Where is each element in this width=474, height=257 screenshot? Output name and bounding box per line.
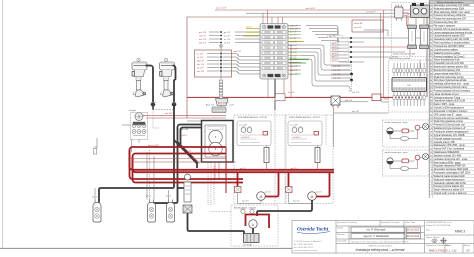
svg-text:Zlacze konektorowe 8-pin: Zlacze konektorowe 8-pin [434,59,461,62]
svg-text:Sprawdzil / Checked: Sprawdzil / Checked [381,222,399,224]
svg-text:Oswietlenie kabiny LED 12V 2x3: Oswietlenie kabiny LED 12V 2x3W [434,38,470,41]
svg-text:cb 1.5²: cb 1.5² [197,56,203,59]
svg-text:ACC 1x1.5²: ACC 1x1.5² [218,101,229,104]
svg-text:ACC 1.5²: ACC 1.5² [206,104,215,107]
svg-text:Arkusz: Arkusz [464,244,470,247]
svg-text:mas 16²: mas 16² [184,150,192,153]
svg-text:stacyjka: stacyjka [129,109,137,112]
svg-text:Zasilanie lodowki 12V 45W: Zasilanie lodowki 12V 45W [434,155,462,157]
svg-text:Sygnal dzwiekowy 12V 105dB: Sygnal dzwiekowy 12V 105dB [434,135,465,137]
svg-text:Antena VHF 1.5m z podstawa: Antena VHF 1.5m z podstawa [434,148,465,151]
svg-text:pz 1.5²: pz 1.5² [166,195,172,198]
svg-text:Akumulator serwisowy 90Ah AGM: Akumulator serwisowy 90Ah AGM [434,168,469,171]
svg-text:fax +48 89 646 29 56: fax +48 89 646 29 56 [294,247,314,249]
svg-text:hor 1.5²: hor 1.5² [197,70,204,73]
svg-text:Przewod zasilajacy 2x2.5mm2: Przewod zasilajacy 2x2.5mm2 [434,55,466,58]
svg-text:zie 1.5²: zie 1.5² [290,57,297,60]
svg-text:akum 2x16²: akum 2x16² [148,144,159,147]
svg-text:16.10.2012: 16.10.2012 [407,235,420,238]
svg-text:ec 1.5²: ec 1.5² [224,38,230,41]
svg-text:Silnik zaburtowy 40KM z rozr.: Silnik zaburtowy 40KM z rozr. elektr. [434,11,471,14]
svg-text:Panel rozdzielczy z bezpieczni: Panel rozdzielczy z bezpiecznikami [434,42,470,45]
svg-text:Przewod rozruchowy 2x16mm2: Przewod rozruchowy 2x16mm2 [434,14,467,17]
svg-text:Przekaznik rozdzielajacy VSR 1: Przekaznik rozdzielajacy VSR 125A [434,172,471,175]
svg-text:Przewod masowy 16mm2 czarny: Przewod masowy 16mm2 czarny [434,86,469,89]
svg-text:acc 1.5²: acc 1.5² [290,47,297,50]
svg-text:Listwa zaciskowa 12-pol.: Listwa zaciskowa 12-pol. [434,93,460,96]
svg-text:Lampa kotwiczna topowa LED: Lampa kotwiczna topowa LED [434,35,465,38]
svg-text:wyl.: wyl. [178,169,182,171]
svg-text:pom 1.5²: pom 1.5² [290,73,298,76]
svg-text:lod 1.5²: lod 1.5² [290,44,297,47]
svg-text:acc 1.5²: acc 1.5² [197,63,204,66]
svg-text:Przycisk sygnalu na konsoli: Przycisk sygnalu na konsoli [434,137,463,140]
svg-text:vcc +12V: vcc +12V [239,124,248,126]
svg-text:pol 1.5²: pol 1.5² [332,55,339,58]
svg-text:Pompa prysznica kokpitu 12V: Pompa prysznica kokpitu 12V [434,185,465,188]
svg-text:cb 1.5²: cb 1.5² [290,40,296,43]
svg-text:Nazwa / Name:: Nazwa / Name: [426,237,440,239]
svg-text:Skala: Skala [446,245,452,247]
svg-text:pol 1.5²: pol 1.5² [332,45,339,48]
svg-text:Przekaznik rozruchu 12V 30A: Przekaznik rozruchu 12V 30A [434,62,465,65]
svg-text:Instalacja elektryczna – schem: Instalacja elektryczna – schemat [356,248,406,252]
svg-text:pw 2.5²: pw 2.5² [265,190,271,193]
svg-text:zlacze instalacji silnikow: zlacze instalacji silnikow [389,57,411,60]
svg-text:Wskaznik poziomu paliwa: Wskaznik poziomu paliwa [434,53,461,55]
svg-text:sw 1.5²: sw 1.5² [197,66,204,69]
svg-text:Zawor elektryczny paliwa 12V: Zawor elektryczny paliwa 12V [434,189,465,192]
svg-text:pol 1.5²: pol 1.5² [332,52,339,55]
svg-text:Okablowanie NMEA2000: Okablowanie NMEA2000 [434,151,460,154]
svg-text:Projekt: Projekt [337,227,344,230]
svg-text:Wylacznik plywakowy pompy: Wylacznik plywakowy pompy [434,121,464,123]
svg-text:pol 1.5²: pol 1.5² [332,59,339,62]
svg-text:BOW WATER ANGLES - OPTION: BOW WATER ANGLES - OPTION [238,116,267,119]
svg-text:Gniazdo przyczepy 7-bieg.: Gniazdo przyczepy 7-bieg. [434,96,462,99]
svg-text:Pompa zeza automatyczna 12V: Pompa zeza automatyczna 12V [434,18,467,21]
svg-text:Wskaznik napiecia baterii LED: Wskaznik napiecia baterii LED [434,175,465,178]
svg-text:Skrzynka przylaczeniowa silnik: Skrzynka przylaczeniowa silnika [434,79,468,82]
svg-text:Bezpiecznik topikowy 15A: Bezpiecznik topikowy 15A [434,69,461,72]
svg-text:+ak 602.5²: +ak 602.5² [241,136,250,139]
svg-text:ster: ster [94,146,98,149]
svg-text:Wymiary w mm / Dimensions in m: Wymiary w mm / Dimensions in mm Toleranc… [351,241,409,243]
svg-text:bezpieczniki glowne 30A: bezpieczniki glowne 30A [393,53,416,56]
svg-text:kab 1.5²: kab 1.5² [290,24,298,27]
svg-text:tel. +48 89 646 09 00: tel. +48 89 646 09 00 [294,243,314,246]
svg-text:pol 1.5²: pol 1.5² [332,42,339,45]
svg-text:st 2 1.5²: st 2 1.5² [333,69,341,72]
svg-text:zas 1 x 2.5²: zas 1 x 2.5² [216,7,227,10]
svg-text:STERN WATER ANGLES - OPTION: STERN WATER ANGLES - OPTION [289,116,320,119]
svg-text:Przewod plusowy 16mm2 czerwony: Przewod plusowy 16mm2 czerwony [434,89,471,92]
svg-text:Pompa zeza reczna membranowa: Pompa zeza reczna membranowa [434,117,470,120]
svg-text:10P: 10P [407,85,411,87]
svg-text:ec 1.5²: ec 1.5² [197,52,203,55]
svg-text:Przelacznik swiatel nawigacyjn: Przelacznik swiatel nawigacyjnych [434,130,470,133]
svg-text:mtr 2x2.5²: mtr 2x2.5² [306,7,315,10]
svg-text:ec 1.5²: ec 1.5² [290,37,296,40]
svg-text:Echosonda z czujnikiem rufowym: Echosonda z czujnikiem rufowym [434,110,468,113]
svg-text:nav 1.5²: nav 1.5² [199,38,207,41]
svg-text:Typ:: Typ: [426,230,430,232]
svg-text:Gniazdo 12V na panelu sterowan: Gniazdo 12V na panelu sterowania [434,28,470,31]
svg-text:Lampa nawigacyjna dziobowa bi-: Lampa nawigacyjna dziobowa bi-color [434,31,473,34]
svg-text:1:10: 1:10 [452,249,457,252]
svg-text:Glosniki 2x20W wodoodporne: Glosniki 2x20W wodoodporne [434,107,465,110]
svg-text:gn 1.5²: gn 1.5² [290,30,297,33]
svg-text:ra 1.5²: ra 1.5² [290,33,296,36]
svg-text:Wylacznik cisnieniowy pompy: Wylacznik cisnieniowy pompy [434,77,465,79]
svg-text:om 1.5²: om 1.5² [234,50,241,53]
svg-text:OSTRODA YACHT Sp. z o.o.: OSTRODA YACHT Sp. z o.o. [426,221,452,224]
svg-text:Regulator ladowania PWM 10A: Regulator ladowania PWM 10A [434,165,466,168]
svg-text:Akumulator rozruchowy 12V 100A: Akumulator rozruchowy 12V 100Ah [434,4,471,7]
svg-text:pol 1.5²: pol 1.5² [332,49,339,52]
svg-text:Swiatla pozycyjne burtowe L+P: Swiatla pozycyjne burtowe L+P [434,127,466,130]
svg-text:www.ostroda-yacht.com.pl: www.ostroda-yacht.com.pl [294,249,318,252]
svg-text:st 4 1.5²: st 4 1.5² [333,77,341,80]
svg-text:Rysowal: Rysowal [337,234,345,236]
svg-text:Lodowka turystyczna 12V - opcj: Lodowka turystyczna 12V - opcja [434,158,468,161]
svg-text:Instalacja odbiornikow dod. -: Instalacja odbiornikow dod. - opcja [434,83,470,86]
svg-text:Opracowal / Drawn by: Opracowal / Drawn by [337,222,357,224]
svg-text:ax1 1.5²: ax1 1.5² [352,91,360,94]
svg-text:MM6.3: MM6.3 [455,229,465,233]
svg-text:st 1 1.5²: st 1 1.5² [333,65,341,68]
svg-text:Czujnik poziomu paliwa: Czujnik poziomu paliwa [434,49,459,51]
svg-text:akum 16²: akum 16² [354,22,363,25]
svg-text:Ostróda Yacht: Ostróda Yacht [297,227,329,233]
svg-text:vcc +12V: vcc +12V [290,124,299,126]
svg-text:Radio z MP3 - opcja: Radio z MP3 - opcja [434,104,455,106]
svg-text:swiatla nawigacyjne - opcja: swiatla nawigacyjne - opcja [385,151,409,154]
svg-text:mas 2.5²: mas 2.5² [242,200,249,203]
svg-text:Przetwornica 12V/230V 300W: Przetwornica 12V/230V 300W [434,45,465,48]
svg-text:GPS / ploter map 5'' - opcja: GPS / ploter map 5'' - opcja [434,113,463,116]
svg-text:cb 1.5²: cb 1.5² [224,41,230,44]
svg-text:mas 16²: mas 16² [354,26,362,29]
svg-text:Gniazdo anteny VHF: Gniazdo anteny VHF [434,141,456,144]
svg-text:Filtr wody z zaworem: Filtr wody z zaworem [434,24,456,27]
svg-text:st 3 1.5²: st 3 1.5² [333,73,341,76]
svg-text:Wykaz elementow instalacji: Wykaz elementow instalacji [437,1,464,4]
svg-text:16.10.2012: 16.10.2012 [407,229,420,232]
svg-text:pom 1.5²: pom 1.5² [290,27,298,30]
svg-text:+ak 602.5²: +ak 602.5² [292,136,301,139]
svg-text:Z 14-100 Ostroda ul. Mlynska: Z 14-100 Ostroda ul. Mlynska 9 [294,240,323,243]
svg-text:swiatla nawigacyjne - opcja: swiatla nawigacyjne - opcja [385,121,409,124]
svg-text:kab 1.5²: kab 1.5² [290,69,298,72]
svg-text:Poland 14 -100 OSTRODA: Poland 14 -100 OSTRODA [426,224,451,227]
svg-text:Wylacznik glowny pradu 350A: Wylacznik glowny pradu 350A [434,7,465,10]
svg-text:12V 100Ah: 12V 100Ah [243,244,252,247]
svg-text:lod 1.5²: lod 1.5² [197,59,204,62]
svg-text:Zatwierdzil: Zatwierdzil [337,240,347,243]
svg-text:pw 2.5²: pw 2.5² [291,167,297,170]
svg-text:sw 1.5²: sw 1.5² [290,51,297,54]
svg-text:nav 1.5²: nav 1.5² [329,35,336,38]
svg-text:mgr inz. T. Wasilewski: mgr inz. T. Wasilewski [363,234,389,238]
svg-text:akb 2.5²: akb 2.5² [345,99,353,102]
svg-text:gn 1.5²: gn 1.5² [224,31,231,34]
svg-text:mtr 1.5²: mtr 1.5² [352,110,359,113]
svg-text:Pompa wody pitnej 12V: Pompa wody pitnej 12V [434,21,459,24]
svg-text:nav 1.5²: nav 1.5² [290,65,298,68]
svg-text:pw 2.5²: pw 2.5² [240,167,246,170]
svg-text:mas 2.5²: mas 2.5² [293,200,300,203]
svg-text:Oswietlenie pokladu LED 2x2W: Oswietlenie pokladu LED 2x2W [434,182,467,185]
svg-text:Bezpiecznik topikowy glowny 30: Bezpiecznik topikowy glowny 30A [434,66,469,69]
svg-text:Wylacznik swiatel kotwicznych: Wylacznik swiatel kotwicznych [434,178,466,181]
svg-text:och 2x1.5²: och 2x1.5² [366,10,376,13]
svg-text:Przewod 2x1.5mm2 podw. izol.: Przewod 2x1.5mm2 podw. izol. [434,124,466,127]
svg-text:M: M [311,195,314,199]
svg-text:pw 2.5²: pw 2.5² [316,190,322,193]
svg-text:Czujnik wody w zezie z alarmem: Czujnik wody w zezie z alarmem [434,192,467,195]
svg-text:M: M [260,195,263,199]
svg-text:zol 1.5²: zol 1.5² [246,26,253,29]
svg-text:pur 1.5²: pur 1.5² [199,31,206,34]
svg-text:Data / Date: Data / Date [405,221,416,224]
svg-text:+12V: +12V [229,105,234,107]
svg-text:ra 1.5²: ra 1.5² [224,34,230,37]
svg-text:Lampa rufowa biala 360 st.: Lampa rufowa biala 360 st. [434,72,462,75]
svg-text:kab 1.5²: kab 1.5² [199,41,207,44]
svg-text:zol 1.5²: zol 1.5² [199,34,206,37]
svg-text:Oswietlenie kokpitu LED 2x1W: Oswietlenie kokpitu LED 2x1W [434,100,466,103]
svg-text:MM6.3_PY823.6.1: MM6.3_PY823.6.1 [429,249,450,252]
svg-text:Panel solarny 50W - opcja: Panel solarny 50W - opcja [434,161,462,164]
svg-text:inz. P. Wozniack: inz. P. Wozniack [367,228,386,232]
svg-text:Radiotelefon VHF 25W - opcja: Radiotelefon VHF 25W - opcja [434,144,466,147]
